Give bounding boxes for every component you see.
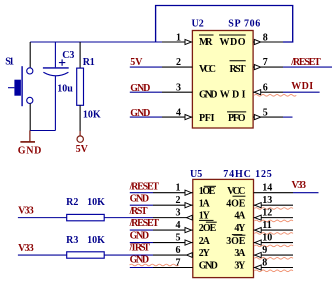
wire GND to U5 pin5	[130, 242, 153, 244]
U5 pin 2 1A	[153, 195, 210, 210]
U5 pin 4 2OE	[153, 220, 217, 234]
svg-text:7: 7	[263, 57, 268, 68]
ERC squiggle pin12	[255, 220, 294, 222]
svg-text:1A: 1A	[199, 199, 211, 210]
svg-text:WDI: WDI	[291, 81, 313, 92]
svg-text:7: 7	[176, 257, 181, 268]
ground power port GND	[18, 131, 42, 157]
svg-text:4A: 4A	[234, 211, 246, 222]
svg-text:13: 13	[262, 195, 272, 206]
svg-text:8: 8	[262, 257, 267, 268]
svg-text:9: 9	[262, 245, 267, 256]
ERC squiggle pin8	[255, 270, 294, 272]
power port 5V at R1 bottom	[76, 131, 89, 155]
svg-text:R1: R1	[83, 57, 95, 68]
ERC squiggle pin13	[255, 208, 294, 210]
wire U2 pin6 WDI stub	[283, 91, 320, 93]
net label GND (U5 pin2)	[130, 194, 150, 205]
U5 pin 12 4A	[234, 207, 293, 221]
svg-text:/TRST: /TRST	[129, 243, 151, 254]
net label /RESET (U5 pin1)	[129, 182, 160, 193]
wire 5V to U2 pin2	[130, 66, 162, 68]
svg-text:1: 1	[176, 183, 181, 194]
net label GND (U5 pin5)	[130, 230, 150, 241]
U5 pin 5 2A	[153, 232, 211, 246]
svg-text:2Y: 2Y	[199, 248, 211, 259]
U5 pin 8 3Y	[234, 257, 293, 271]
U5 pin 1 1OE	[153, 183, 216, 198]
U2 pin 1 MR	[162, 32, 214, 48]
svg-text:10u: 10u	[57, 83, 73, 94]
net label /RST (U5 pin3)	[129, 206, 148, 217]
svg-text:U2: U2	[192, 19, 204, 30]
svg-text:10K: 10K	[87, 197, 105, 208]
svg-text:GND: GND	[130, 230, 150, 241]
net label 5V (U2 pin2)	[130, 57, 143, 68]
U5 pin 9 3A	[234, 245, 293, 259]
svg-text:PFI: PFI	[199, 113, 215, 124]
svg-text:V33: V33	[292, 180, 307, 191]
svg-text:10K: 10K	[83, 109, 101, 120]
svg-text:R2: R2	[66, 197, 78, 208]
svg-text:4: 4	[176, 107, 181, 118]
IC U2 SP706 body	[192, 19, 261, 128]
svg-text:3A: 3A	[234, 248, 246, 259]
svg-text:PFO: PFO	[228, 113, 246, 124]
wire feedback loop WDO to MR	[156, 6, 293, 43]
svg-text:2: 2	[176, 57, 181, 68]
svg-text:WDO: WDO	[220, 37, 246, 48]
wire V33 to R3	[18, 254, 67, 256]
svg-text:12: 12	[262, 207, 272, 218]
svg-text:R3: R3	[66, 235, 78, 246]
svg-text:3OE: 3OE	[226, 236, 246, 247]
svg-text:/RST: /RST	[129, 206, 148, 217]
svg-text:GND: GND	[18, 146, 42, 157]
svg-text:5: 5	[263, 107, 268, 118]
capacitor C3	[43, 42, 75, 131]
net label /RESET (U5 pin4)	[129, 218, 160, 229]
resistor R1	[77, 42, 101, 131]
svg-text:MR: MR	[199, 37, 213, 48]
svg-text:C3: C3	[62, 50, 74, 61]
svg-text:VCC: VCC	[199, 64, 216, 75]
svg-text:VCC: VCC	[227, 186, 245, 197]
resistor R2	[66, 197, 105, 221]
svg-text:4OE: 4OE	[226, 199, 246, 210]
net label WDI	[291, 81, 313, 92]
svg-text:2: 2	[176, 195, 181, 206]
svg-text:4Y: 4Y	[234, 223, 246, 234]
svg-text:V33: V33	[18, 205, 34, 216]
wire V33 to R2	[18, 217, 67, 219]
ERC squiggle pin11	[255, 233, 294, 235]
U5 pin 3 1Y	[153, 207, 214, 221]
svg-text:U5: U5	[190, 169, 202, 180]
U2 pin 8 WDO	[219, 32, 283, 48]
svg-text:5V: 5V	[76, 144, 89, 155]
net label /RESET	[290, 57, 321, 68]
svg-text:10K: 10K	[87, 235, 105, 246]
net label GND (U5 pin7)	[130, 255, 150, 266]
svg-text:/RESET: /RESET	[129, 182, 160, 193]
U2 pin 7 RST	[230, 57, 284, 75]
svg-text:3: 3	[176, 82, 181, 93]
wire GND to U2 pin4	[130, 116, 162, 118]
svg-text:GND: GND	[130, 194, 150, 205]
svg-text:RST: RST	[230, 64, 246, 75]
svg-text:6: 6	[263, 82, 268, 93]
U5 pin 10 3OE	[226, 232, 293, 246]
wire U2 pin7 to /RESET	[283, 66, 332, 68]
wire GND to U5 pin2	[130, 204, 153, 206]
net label V33 (R2 input)	[18, 205, 34, 216]
wire top net S1/C3/R1 to U2 pin1	[30, 41, 162, 43]
switch S1	[5, 42, 33, 131]
U5 pin 13 4OE	[226, 195, 293, 210]
resistor R3	[66, 235, 105, 258]
net label GND (U2 pin3)	[130, 83, 150, 94]
svg-text:74HC 125: 74HC 125	[223, 169, 271, 180]
net label /TRST (U5 pin6)	[129, 243, 151, 254]
U5 pin 6 2Y	[153, 245, 211, 259]
wire R2 to U5 pin3	[104, 217, 153, 219]
svg-text:8: 8	[263, 32, 268, 43]
svg-text:WDI: WDI	[220, 90, 246, 101]
svg-text:S1: S1	[5, 57, 14, 68]
U5 pin 7 GND	[153, 257, 218, 271]
U5 pin 14 VCC	[227, 183, 293, 198]
IC U5 74HC125 body	[190, 169, 272, 277]
svg-text:1: 1	[176, 32, 181, 43]
wire GND to U5 pin7	[130, 267, 153, 269]
svg-text:SP 706: SP 706	[228, 19, 260, 30]
svg-text:3: 3	[176, 207, 181, 218]
wire U2 pin5 stub	[283, 116, 293, 118]
svg-text:1OE: 1OE	[199, 186, 216, 197]
wire R3 to U5 pin6	[104, 254, 153, 256]
U2 pin 3 GND	[162, 82, 218, 100]
wire GND to U2 pin3	[130, 91, 162, 93]
svg-text:V33: V33	[18, 243, 34, 254]
net label V33 (R3 input)	[18, 243, 34, 254]
U2 pin 5 PFO	[227, 107, 283, 124]
ERC squiggle under U5 pin7 GND	[130, 264, 179, 266]
svg-text:3Y: 3Y	[234, 261, 246, 272]
net label V33 (U5 pin14)	[292, 180, 307, 191]
U5 pin 11 4Y	[232, 220, 293, 235]
svg-text:/RESET: /RESET	[129, 218, 160, 229]
ERC squiggle pin9	[255, 258, 294, 260]
svg-text:5: 5	[176, 232, 181, 243]
net label GND (U2 pin4)	[130, 108, 150, 119]
U2 pin 6 WDI	[220, 82, 283, 100]
svg-text:GND: GND	[199, 261, 218, 272]
svg-text:10: 10	[262, 232, 272, 243]
svg-text:2A: 2A	[199, 236, 211, 247]
ERC squiggle pin10	[255, 245, 294, 247]
wire S1/C3 bottom node to ground	[30, 130, 55, 132]
U2 pin 2 VCC	[162, 57, 216, 75]
wire /RESET to U5 pin1	[130, 192, 153, 194]
U2 pin 4 PFI	[162, 107, 215, 124]
svg-text:4: 4	[176, 220, 181, 231]
svg-text:14: 14	[262, 183, 272, 194]
svg-text:11: 11	[262, 220, 271, 231]
ERC squiggle under WDI wire	[254, 95, 296, 97]
wire U5 pin14 to V33	[293, 192, 319, 194]
svg-text:5V: 5V	[130, 57, 143, 68]
svg-text:GND: GND	[199, 90, 218, 101]
wire /RESET to U5 pin4	[130, 229, 153, 231]
svg-text:2OE: 2OE	[199, 223, 217, 234]
svg-text:/RESET: /RESET	[290, 57, 321, 68]
svg-text:6: 6	[176, 245, 181, 256]
